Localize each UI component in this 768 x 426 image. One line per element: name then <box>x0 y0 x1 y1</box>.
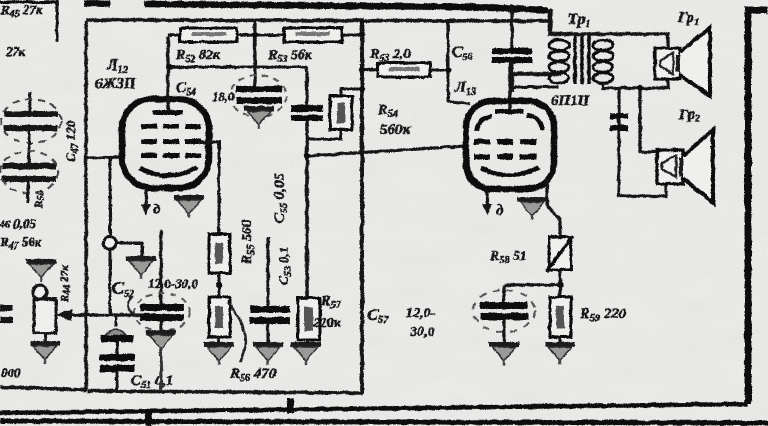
svg-text:R55 560: R55 560 <box>240 220 257 265</box>
svg-text:R59 220: R59 220 <box>579 306 627 324</box>
svg-text:220к: 220к <box>312 316 342 331</box>
svg-text:д: д <box>496 203 504 219</box>
wire: right border <box>748 10 768 404</box>
potentiometer R48 (volume) <box>34 299 56 341</box>
svg-text:R53 2,0: R53 2,0 <box>369 47 410 64</box>
capacitor cut plates at left edge <box>0 305 13 323</box>
svg-text:6П1П: 6П1П <box>551 93 591 109</box>
node: terminal circle M <box>104 237 117 250</box>
wire: cathode to R58 <box>547 178 560 237</box>
tube Л13 grid rows <box>474 139 536 160</box>
label C46 0,05 <box>0 216 37 231</box>
svg-text:д: д <box>153 202 161 218</box>
ground (tube Л13 cathode) <box>517 197 547 220</box>
svg-text:С51 0,1: С51 0,1 <box>131 373 174 391</box>
wire: left neighbour box bottom <box>0 387 86 390</box>
label Л12 <box>106 57 128 76</box>
tube Л13 anode <box>495 109 523 114</box>
tube Л12 cathode arc <box>140 167 197 176</box>
wire: anode lead tube Л13 <box>508 60 511 110</box>
node: terminal circle left <box>33 285 47 299</box>
svg-text:000: 000 <box>1 365 21 380</box>
tube Л13 heater arrow with label д <box>482 190 504 219</box>
label R59 220 <box>579 306 627 324</box>
label 27k <box>5 44 26 59</box>
capacitor C47a (neighbour, electrolytic) <box>1 92 61 143</box>
label C55 0,05 vertical <box>272 172 290 223</box>
wire: from terminal M to pickup mark <box>116 243 142 256</box>
tube Л13 corner arcs <box>477 115 542 131</box>
wire: between R52 and R53 <box>237 34 284 37</box>
speaker Гр2 <box>657 130 713 203</box>
resistor R54 <box>308 89 362 139</box>
capacitor C54 stem <box>253 20 256 87</box>
tube Л12 envelope <box>122 99 209 188</box>
resistor R58 (adjustable) <box>546 236 573 272</box>
wire: grid2 exit to R55 <box>198 142 219 234</box>
label Гр1 <box>677 10 699 28</box>
wire: anode to C55 (y=67) <box>168 66 307 69</box>
transformer Тр1 core <box>575 35 589 84</box>
label R55 560 vertical <box>240 220 257 265</box>
wire: anode row y=35 <box>168 34 180 37</box>
capacitor C53 <box>250 237 290 343</box>
resistor R59 <box>550 297 571 343</box>
ground: small mark below terminal M wire <box>126 256 156 279</box>
wire: secondary top to Гр1 <box>550 34 668 49</box>
wire: screen feed vertical <box>448 21 470 104</box>
wire: left border of box <box>84 20 87 391</box>
label C47 120 vertical <box>63 120 81 162</box>
wire: terminal M down to wiper line <box>109 249 112 315</box>
label C54 18,0 <box>176 80 235 104</box>
svg-text:12,0-: 12,0- <box>406 306 436 321</box>
speaker Гр1 <box>655 28 710 96</box>
capacitor C56 <box>492 4 532 92</box>
node dot anode/y67 <box>166 64 172 70</box>
node dot R58/R59 branch <box>557 282 564 289</box>
tube Л13 envelope <box>466 101 554 189</box>
label 6Ж3П <box>95 76 137 92</box>
label R45 27k (left neighbour) <box>0 2 43 20</box>
svg-text:С55 0,05: С55 0,05 <box>272 172 290 223</box>
label R58 51 <box>489 249 527 266</box>
wire: anode node to primary (upper) <box>510 72 561 77</box>
capacitor C51 <box>99 315 135 391</box>
ground (C57) <box>489 342 519 365</box>
wire: outer bottom border <box>0 404 748 413</box>
label R47 56k <box>0 234 42 252</box>
ground (C52) <box>146 330 176 353</box>
label C51 0,1 <box>131 373 174 391</box>
label C56 <box>452 44 473 63</box>
resistor R52 <box>180 28 237 42</box>
capacitor C54 (electrolytic) <box>230 75 286 117</box>
capacitor C57 (electrolytic) <box>473 285 535 342</box>
wire: grid line to tube Л13 <box>307 146 466 156</box>
wire: wiper arrow to C51 node <box>56 309 150 321</box>
wire: branch to C57 <box>504 283 560 286</box>
svg-text:R50: R50 <box>33 191 47 209</box>
wire: top border segment left <box>84 3 110 4</box>
svg-text:18,0: 18,0 <box>212 89 235 104</box>
wire: grid line of tube 1 <box>86 157 124 158</box>
label Тр1 <box>568 11 590 30</box>
ground (C54) <box>244 106 274 129</box>
wire: inner box bottom <box>88 391 363 393</box>
label C57 12,0-30,0 <box>367 305 436 340</box>
wire: anode node to primary (lower) <box>510 86 558 89</box>
svg-text:R56 470: R56 470 <box>229 366 277 384</box>
label R44 27k vertical <box>59 265 73 303</box>
ground (tube Л12 cathode) <box>174 195 204 218</box>
label C53 0,1 vertical <box>276 247 294 285</box>
wire: grid drop to terminal M <box>109 157 112 237</box>
wire: C52 ground streak to border <box>160 348 163 391</box>
label R53' 2,0 <box>369 47 410 64</box>
resistor R53 <box>284 28 342 42</box>
ground (R59) <box>545 342 575 365</box>
svg-text:6ЖЗП: 6ЖЗП <box>95 76 137 92</box>
junction tick on bottom line <box>287 398 294 413</box>
node dot R55/R56 <box>216 282 223 289</box>
ground (R56) <box>204 342 234 365</box>
resistor R55 <box>209 234 230 297</box>
ground (potentiometer) <box>30 341 60 364</box>
label C52 12,0-30,0 <box>112 276 198 316</box>
svg-text:R53 56к: R53 56к <box>267 48 313 65</box>
wire: secondary bottom to Гр1 bottom <box>603 79 668 88</box>
ground (neighbour stage) <box>26 259 56 282</box>
label 000 <box>1 365 21 380</box>
capacitor C55 <box>291 67 323 298</box>
capacitor C47b (neighbour, electrolytic) <box>0 131 58 203</box>
resistor R56 <box>209 297 230 343</box>
label R57 220k <box>312 294 342 331</box>
label R56 470 with leader <box>228 302 277 384</box>
label R52 82k <box>175 48 221 65</box>
wire: R53 to bus <box>342 34 362 37</box>
label Гр2 <box>678 107 700 125</box>
tube Л12 heater arrow with label д <box>141 189 161 218</box>
wire: bottom edge line <box>0 421 768 423</box>
transformer Тр1 primary <box>549 40 569 83</box>
label 6П1П <box>551 93 591 109</box>
svg-text:R44 27к: R44 27к <box>59 265 73 303</box>
svg-text:R52 82к: R52 82к <box>175 48 221 65</box>
tube Л13 cathode arc <box>481 167 539 175</box>
wire: long vertical bus x=362 <box>360 21 364 393</box>
tube Л12 grid rows <box>141 124 201 158</box>
junction tick below bottom line <box>145 411 152 426</box>
wire: stub top-left border <box>56 0 59 42</box>
transformer Тр1 secondary <box>593 40 613 83</box>
svg-text:30,0: 30,0 <box>409 325 435 340</box>
label R54 560k <box>377 102 411 138</box>
capacitor C52 (electrolytic) <box>134 230 190 331</box>
ground (C53) <box>253 342 283 365</box>
node dot grid/C55 <box>304 153 310 159</box>
resistor R53' 2,0 <box>362 63 448 77</box>
wire: top border segment right <box>144 4 548 10</box>
wire: B+ rail <box>86 20 551 21</box>
ground (R57) <box>291 342 321 365</box>
wire: R58 to R59 with branch <box>558 270 561 297</box>
wire: cut mark over R45 <box>0 1 56 4</box>
wire: return with connector marks to Гр2 bottom <box>610 88 666 196</box>
wire: series drop to Гр2 top <box>640 88 658 152</box>
label Л13 <box>454 79 476 98</box>
node dot C54/y35 <box>252 32 258 38</box>
svg-text:12,0-30,0: 12,0-30,0 <box>148 276 198 291</box>
wire: rail drop to transformer <box>550 9 561 34</box>
tube Л12 anode <box>153 36 183 115</box>
node dot at 640,88 <box>637 85 643 91</box>
svg-text:560к: 560к <box>380 122 411 138</box>
label R53 56k <box>267 48 313 65</box>
svg-text:27к: 27к <box>5 44 26 59</box>
label R50 vertical <box>33 191 47 209</box>
resistor R57 <box>298 298 320 343</box>
node dots on bus x=362 <box>359 18 451 92</box>
